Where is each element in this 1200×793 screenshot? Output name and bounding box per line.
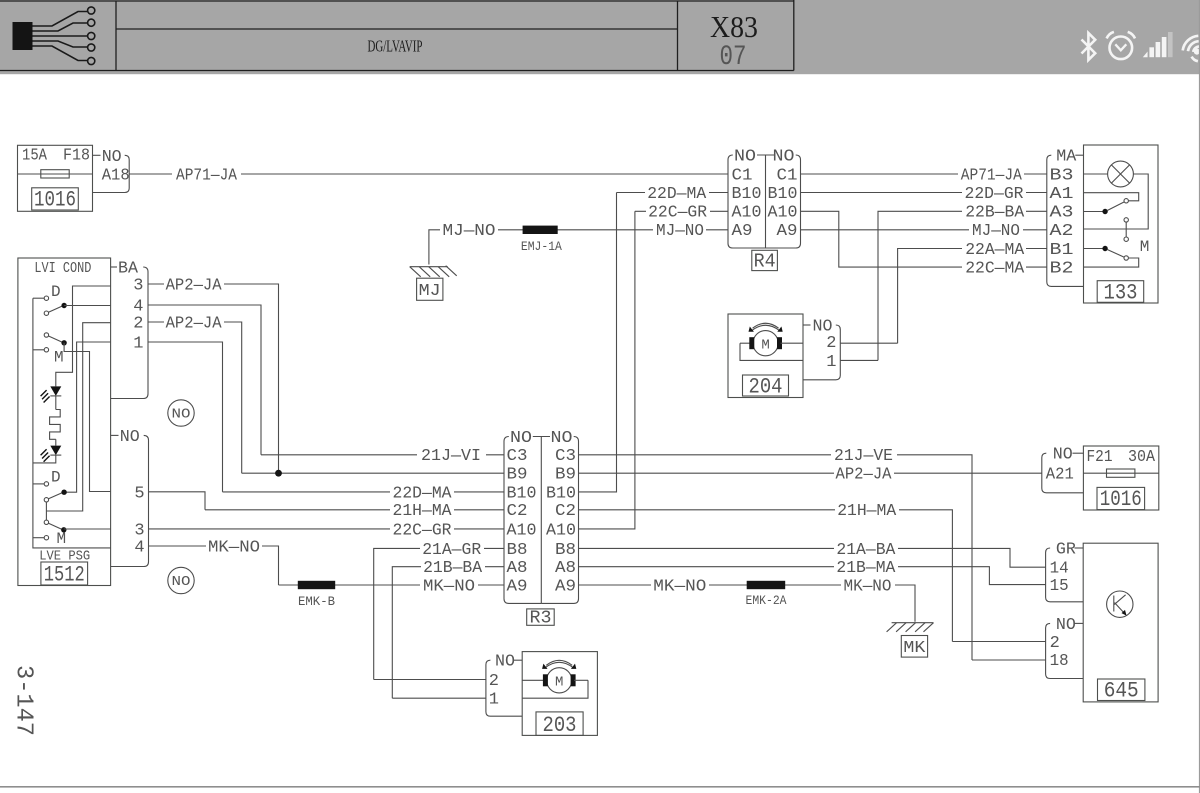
fuse F18 15A supply unit 1016 <box>18 145 93 212</box>
svg-text:A8: A8 <box>555 559 576 578</box>
connector icon in title block <box>13 7 95 65</box>
wire 203 pin2 row <box>374 679 486 681</box>
wire R3 A8 right: 21B-MA steps into 645 pin15 <box>579 567 1046 585</box>
svg-text:M: M <box>761 337 769 353</box>
splice EMJ-1A <box>523 226 558 234</box>
svg-text:C2: C2 <box>555 502 576 521</box>
svg-text:MJ—NO: MJ—NO <box>443 222 496 241</box>
middle link with contacts <box>1124 218 1128 222</box>
svg-text:D: D <box>51 283 61 301</box>
svg-text:18: 18 <box>1050 652 1069 671</box>
svg-text:NO: NO <box>172 407 191 423</box>
svg-text:A10: A10 <box>732 204 762 223</box>
splice EMK-2A <box>747 581 786 589</box>
svg-text:C3: C3 <box>555 447 576 466</box>
LVI connector bracket BA (pins 3,4,2,1) <box>111 260 148 399</box>
svg-text:A3: A3 <box>1050 204 1074 223</box>
645 connector bracket NO (pins 2,18) <box>1046 616 1084 679</box>
ground MJ branch: wire MJ-NO with splice EMJ-1A into R4 A9 <box>429 230 728 265</box>
svg-text:5: 5 <box>134 484 144 503</box>
svg-text:B3: B3 <box>1050 166 1074 185</box>
svg-text:NO: NO <box>734 148 756 167</box>
svg-text:B9: B9 <box>555 466 576 485</box>
unit label 133 <box>1097 281 1144 303</box>
svg-text:21J—VE: 21J—VE <box>834 447 893 466</box>
svg-text:21H—MA: 21H—MA <box>393 502 453 521</box>
motor M with brushes <box>522 679 544 681</box>
svg-text:NO: NO <box>1053 446 1073 465</box>
motor unit 204 <box>728 314 803 400</box>
svg-text:21J—VI: 21J—VI <box>421 447 481 466</box>
svg-text:GR: GR <box>1056 541 1076 560</box>
svg-text:15: 15 <box>1050 577 1069 596</box>
wire AP71-JA from fuse A18 to R4 C1 <box>129 173 728 175</box>
status icon alarm clock <box>1107 32 1135 59</box>
svg-text:EMJ-1A: EMJ-1A <box>521 239 562 254</box>
switch blade lower <box>1084 248 1104 250</box>
bottom rule <box>0 786 1200 788</box>
wire R3 B10 right riser up to R4 22D-MA row <box>579 193 617 492</box>
wire LVI pin5 step to 21H-MA row <box>149 492 206 510</box>
svg-text:22D—GR: 22D—GR <box>965 185 1024 204</box>
svg-text:C3: C3 <box>507 447 528 466</box>
internal common bus and partition <box>33 298 111 548</box>
svg-text:LVI COND: LVI COND <box>34 260 91 277</box>
svg-text:B10: B10 <box>732 185 762 204</box>
svg-text:C1: C1 <box>732 166 753 185</box>
fuse F18 connector bracket pin A18 (NO) <box>93 148 130 193</box>
svg-text:MJ: MJ <box>419 282 441 301</box>
lamp (circle with X) <box>1084 173 1108 175</box>
svg-text:MK—NO: MK—NO <box>208 538 260 557</box>
svg-text:M: M <box>555 675 563 691</box>
wire 22A-MA from 204 pin2 riser to 133 B1 <box>898 249 1047 344</box>
internal wire pin1 to switch S3 <box>64 342 111 492</box>
wire 645 pin2 row <box>952 641 1045 643</box>
switch contact from A1 <box>1084 193 1139 201</box>
wire 204 pin2 row <box>840 342 897 344</box>
svg-text:133: 133 <box>1104 281 1138 306</box>
svg-text:21H—MA: 21H—MA <box>837 502 897 521</box>
svg-text:D: D <box>51 469 61 487</box>
control unit 645 <box>1083 543 1158 704</box>
svg-text:A10: A10 <box>507 521 537 540</box>
title block frame <box>0 0 794 71</box>
svg-text:B10: B10 <box>768 185 798 204</box>
svg-text:204: 204 <box>749 375 783 400</box>
svg-text:21B—MA: 21B—MA <box>836 559 896 578</box>
svg-text:22A—MA: 22A—MA <box>965 241 1025 260</box>
645 connector bracket GR (pins 14,15) <box>1046 541 1084 602</box>
node NO marker lower <box>168 567 194 593</box>
203 connector bracket NO (pins 2,1) <box>486 653 522 717</box>
svg-text:MK—NO: MK—NO <box>423 577 475 596</box>
status icon wifi (clipped at screen edge) <box>1183 36 1200 61</box>
svg-text:2: 2 <box>133 314 143 333</box>
K symbol <box>1107 591 1133 617</box>
svg-text:MJ—NO: MJ—NO <box>656 222 704 241</box>
svg-text:22B—BA: 22B—BA <box>965 204 1025 223</box>
svg-text:1016: 1016 <box>34 188 76 213</box>
svg-text:AP71—JA: AP71—JA <box>961 166 1023 185</box>
svg-text:14: 14 <box>1050 560 1069 579</box>
svg-text:NO: NO <box>773 148 795 167</box>
svg-text:A9: A9 <box>732 222 753 241</box>
svg-text:B10: B10 <box>546 484 576 503</box>
svg-text:A10: A10 <box>768 204 798 223</box>
wire R3 B8 right: 21A-BA steps into 645 pin14 <box>579 548 1046 567</box>
wire 21H-MA into R3 C2 <box>205 509 504 511</box>
svg-text:A21: A21 <box>1046 466 1074 485</box>
svg-text:22C—MA: 22C—MA <box>965 260 1025 279</box>
svg-text:B10: B10 <box>507 484 537 503</box>
svg-text:M: M <box>57 530 67 548</box>
connector R3 (double bracket NO|NO) <box>504 429 579 628</box>
wire R3 C3 right: 21J-VE to 645 pin18 riser <box>579 455 973 660</box>
svg-text:MK—NO: MK—NO <box>653 577 706 596</box>
motor M with brushes <box>740 342 751 344</box>
svg-text:NO: NO <box>102 148 122 167</box>
wire AP71-JA from R4 C1 to 133 B3 <box>801 173 1047 175</box>
svg-text:22C—GR: 22C—GR <box>648 204 707 223</box>
svg-text:R4: R4 <box>754 251 776 273</box>
LVI connector bracket NO (pins 5,3,4) <box>111 428 149 567</box>
svg-text:C1: C1 <box>777 166 798 185</box>
svg-text:C2: C2 <box>507 502 528 521</box>
svg-text:NO: NO <box>172 574 191 590</box>
svg-text:M: M <box>1140 238 1150 256</box>
svg-text:21B—BA: 21B—BA <box>423 559 483 578</box>
switch unit LVI COND / LVE PSG 1512 <box>18 258 111 588</box>
svg-text:4: 4 <box>134 538 144 557</box>
svg-text:R3: R3 <box>530 608 552 628</box>
status/title banner background <box>0 0 1200 74</box>
svg-text:NO: NO <box>510 429 532 448</box>
wire R3 C2 right: 21H-MA to 645 pin2 riser <box>579 510 953 642</box>
svg-text:M: M <box>54 349 64 367</box>
rotation arrows <box>545 662 573 667</box>
wire 22B-BA from 204 pin1 riser to 133 A3 <box>878 211 1047 360</box>
svg-text:A9: A9 <box>777 222 798 241</box>
svg-text:B2: B2 <box>1050 260 1074 279</box>
node NO marker upper <box>168 400 194 426</box>
svg-text:F21: F21 <box>1087 448 1113 467</box>
wire MK-NO through splice EMK-B into R3 A9 <box>279 584 505 586</box>
svg-text:1: 1 <box>133 334 143 353</box>
svg-text:EMK-2A: EMK-2A <box>746 593 787 608</box>
LED D2 <box>50 446 61 456</box>
wire 21B-BA from 203 pin1 riser into R3 A8 <box>392 567 504 699</box>
switch S2 (M) <box>44 333 48 337</box>
svg-text:B1: B1 <box>1050 241 1074 260</box>
svg-text:22C—GR: 22C—GR <box>393 521 452 540</box>
wire 203 pin1 row <box>392 697 486 699</box>
wire MJ-NO from R4 A9 to 133 A2 <box>801 229 1047 231</box>
svg-text:22D—MA: 22D—MA <box>647 185 707 204</box>
unit label 204 <box>743 375 789 396</box>
svg-text:A10: A10 <box>546 521 576 540</box>
svg-text:A9: A9 <box>555 577 576 596</box>
switch S4 (M) <box>44 520 48 524</box>
unit label 203 <box>536 712 583 736</box>
lamp unit 133 <box>1084 145 1159 306</box>
svg-text:MK: MK <box>903 639 926 658</box>
motor unit 203 <box>522 652 597 738</box>
svg-text:AP71—JA: AP71—JA <box>176 167 238 186</box>
wire 21A-GR from 203 pin2 riser into R3 B8 <box>374 548 504 679</box>
svg-text:A8: A8 <box>507 559 528 578</box>
wire AP2-JA from LVI pin2 down to B9 row <box>148 322 242 473</box>
link between S3/S4 <box>45 502 47 520</box>
resistor R (meander) <box>50 410 61 440</box>
wire R3 A10 right riser up to R4 22C-GR row <box>579 211 635 529</box>
svg-text:203: 203 <box>543 713 577 738</box>
svg-text:1: 1 <box>489 691 499 710</box>
svg-text:1512: 1512 <box>44 563 85 588</box>
svg-text:2: 2 <box>489 672 499 691</box>
wire 204 pin1 row <box>840 359 878 361</box>
svg-text:DG/LVAVIP: DG/LVAVIP <box>368 37 423 56</box>
wire AP2-JA B9 row into R3 B9 <box>242 472 504 474</box>
wire 22D-MA into R3 B10 <box>223 491 505 493</box>
wire 645 pin18 row <box>972 659 1046 661</box>
F21 connector bracket pin A21 (NO) <box>1042 446 1084 493</box>
svg-text:A1: A1 <box>1050 185 1074 204</box>
wire 22C-GR into R3 A10 <box>149 528 505 530</box>
svg-text:NO: NO <box>551 429 573 448</box>
switch blade upper <box>1084 211 1104 213</box>
wire AP2-JA from LVI pin3 down to B9 node <box>148 284 279 473</box>
svg-text:1: 1 <box>826 353 836 372</box>
svg-text:21A—BA: 21A—BA <box>836 541 896 560</box>
status icon bluetooth <box>1082 33 1096 60</box>
svg-text:30A: 30A <box>1128 448 1156 467</box>
wire 21J-VI into R3 C3 <box>261 454 504 456</box>
svg-text:EMK-B: EMK-B <box>298 594 335 609</box>
204 connector bracket NO (pins 2,1) <box>803 318 840 380</box>
wire LVI pin1 to R3 B10 (22D-MA) <box>148 342 223 492</box>
svg-text:MJ—NO: MJ—NO <box>972 222 1020 241</box>
wire 22D-MA from riser into R4 B10 <box>617 192 729 194</box>
svg-text:15A: 15A <box>22 147 48 166</box>
ground symbol MJ <box>410 266 457 301</box>
wire LVI pin4 to R3 C3 (21J-VI) <box>148 305 261 455</box>
svg-text:2: 2 <box>1050 634 1060 653</box>
right screen edge line <box>1199 0 1200 793</box>
svg-text:X83: X83 <box>710 9 758 44</box>
svg-text:3: 3 <box>133 276 143 295</box>
svg-text:3-147: 3-147 <box>10 665 37 736</box>
wire R3 A9 right: MK-NO through splice EMK-2A to ground MK <box>579 585 916 622</box>
svg-text:A2: A2 <box>1050 222 1074 241</box>
svg-text:F18: F18 <box>63 147 90 166</box>
svg-text:MA: MA <box>1056 148 1077 167</box>
internal wire pin3 to LED chain <box>56 286 111 386</box>
svg-text:MK—NO: MK—NO <box>844 577 892 596</box>
wire 22C-GR from riser into R4 A10 <box>635 210 728 212</box>
svg-text:1016: 1016 <box>1100 487 1142 512</box>
svg-text:645: 645 <box>1104 679 1139 704</box>
svg-text:NO: NO <box>495 653 515 672</box>
splice EMK-B <box>298 581 335 589</box>
LED D1 <box>50 386 61 396</box>
ground symbol MK <box>887 623 934 658</box>
svg-text:AP2—JA: AP2—JA <box>166 314 223 333</box>
wire MK-NO from LVI pin4 down to EMK-B row <box>149 546 279 585</box>
svg-text:07: 07 <box>720 42 747 73</box>
wire R3 B9 right: AP2-JA to fuse F21 A21 <box>579 472 1042 474</box>
svg-text:AP2—JA: AP2—JA <box>166 276 223 295</box>
wire 22C-MA from R4 A10 step-down to 133 B2 <box>801 211 1047 267</box>
svg-text:B9: B9 <box>507 466 528 485</box>
svg-text:A18: A18 <box>102 166 130 185</box>
wire 22D-GR from R4 B10 to 133 A1 <box>801 192 1047 194</box>
unit label 645 <box>1098 679 1145 701</box>
svg-text:A9: A9 <box>507 577 528 596</box>
svg-text:AP2—JA: AP2—JA <box>836 466 893 485</box>
svg-text:B8: B8 <box>507 541 528 560</box>
status icon signal bars <box>1143 32 1173 57</box>
svg-text:2: 2 <box>826 334 836 353</box>
svg-text:B8: B8 <box>555 541 576 560</box>
junction dot AP2-JA <box>275 470 282 477</box>
rotation arrows <box>752 325 780 330</box>
internal wire pin2 to lower link <box>46 323 110 511</box>
svg-text:NO: NO <box>120 428 140 447</box>
connector R4 (double bracket NO|NO) <box>728 148 801 273</box>
svg-text:22D—MA: 22D—MA <box>393 484 453 503</box>
svg-text:NO: NO <box>1056 616 1076 635</box>
fuse F21 30A unit 1016 <box>1083 446 1158 512</box>
svg-text:21A—GR: 21A—GR <box>422 541 481 560</box>
133 connector bracket MA <box>1047 148 1084 287</box>
